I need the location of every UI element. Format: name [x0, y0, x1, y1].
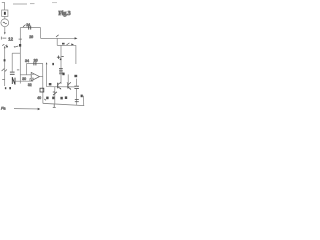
node tick	[0, 37, 2, 40]
wire horizontal y53	[12, 52, 20, 54]
op-amp input wire	[20, 74, 31, 76]
node blob	[4, 59, 6, 61]
top edge dash 2	[30, 3, 35, 5]
svg-text:12: 12	[8, 37, 13, 42]
drop x57	[56, 38, 58, 45]
label 38	[40, 88, 44, 92]
label N blob	[12, 77, 15, 85]
bus corner up	[32, 77, 34, 81]
capacitor C22 plates	[10, 71, 15, 73]
lead arrow 14	[15, 46, 18, 47]
svg-text:30: 30	[22, 77, 26, 81]
tick	[62, 56, 64, 58]
base bus y86.7	[47, 86, 75, 88]
resistor stack R18	[59, 67, 63, 69]
diode marks	[53, 92, 57, 95]
bottom input drop	[30, 79, 31, 82]
vert right edge	[83, 96, 85, 106]
lead diagonals	[2, 69, 5, 71]
wire	[4, 2, 6, 10]
ground marks below bus	[53, 104, 55, 107]
svg-text:32: 32	[28, 83, 32, 87]
wire top horizontal	[20, 27, 40, 29]
label 46	[65, 96, 67, 99]
trim cross	[58, 56, 60, 59]
label 20	[52, 97, 54, 100]
node dot A	[5, 87, 6, 89]
main wire y38.4	[41, 37, 75, 39]
label 44	[60, 97, 62, 100]
wire vertical x12	[11, 53, 13, 71]
ground bus left	[16, 80, 33, 82]
label tick	[6, 46, 8, 48]
label near right	[81, 95, 83, 98]
label 16	[46, 97, 48, 100]
bottom rule	[14, 108, 38, 110]
drop x75.9	[75, 45, 77, 64]
svg-text:Fig.3: Fig.3	[58, 11, 70, 17]
drop x61	[60, 45, 62, 84]
wire y45.4	[57, 44, 76, 46]
transistor Q1	[57, 83, 59, 89]
transistor Q2	[67, 83, 69, 89]
op-amp U1	[31, 72, 39, 80]
arrowhead up	[4, 46, 6, 48]
wire left column	[4, 48, 6, 86]
label 42	[49, 83, 52, 85]
label 18	[62, 73, 64, 76]
feedback wire top	[27, 62, 43, 64]
rule arrow	[38, 108, 41, 110]
svg-text:40: 40	[37, 96, 41, 100]
capacitor C24 plates	[28, 26, 30, 30]
junction tick	[19, 38, 22, 40]
plate tick	[2, 79, 4, 81]
label 14	[19, 44, 21, 47]
arrowhead up small	[46, 62, 48, 64]
arrowhead mid	[71, 43, 74, 45]
svg-text:24: 24	[26, 23, 30, 27]
bottom bus	[43, 103, 84, 105]
plate tick x18	[17, 69, 19, 71]
top edge dash 1	[13, 3, 27, 5]
capacitor C36 plates	[33, 62, 35, 66]
svg-text:26: 26	[29, 35, 33, 39]
svg-text:36: 36	[34, 59, 38, 63]
svg-text:Fa: Fa	[1, 106, 5, 110]
cap plates lower	[75, 99, 79, 101]
lead arrow	[23, 25, 26, 27]
wire stub	[2, 37, 6, 39]
top edge dash 3	[52, 2, 57, 4]
lead tick at x57	[56, 35, 59, 37]
wire vertical x20	[19, 28, 21, 82]
node dot B	[9, 87, 11, 89]
label 17	[74, 75, 77, 77]
wire vertical x40.6	[40, 28, 42, 39]
lead marks	[67, 43, 70, 45]
lead marks	[2, 44, 4, 45]
mirror branch x54.8	[54, 87, 56, 104]
output column	[42, 63, 44, 103]
lead tick	[44, 99, 46, 100]
small blob left	[52, 63, 54, 65]
vert x68 upper	[67, 74, 69, 83]
arrowhead down	[4, 32, 6, 34]
output wire	[40, 76, 43, 78]
meter box M	[2, 10, 8, 16]
svg-text:34: 34	[25, 59, 29, 63]
terminal tick T1	[2, 2, 5, 4]
vert x46.6	[46, 63, 48, 86]
hook	[67, 82, 68, 84]
arrowhead right	[75, 37, 78, 39]
cap C17 plates	[74, 85, 79, 87]
wire	[4, 27, 6, 33]
wire	[4, 16, 6, 19]
tick below bus	[19, 81, 21, 83]
AC source G1	[1, 19, 9, 27]
cap stubs	[76, 79, 78, 87]
feedback drop	[26, 63, 28, 74]
dot	[60, 59, 62, 61]
